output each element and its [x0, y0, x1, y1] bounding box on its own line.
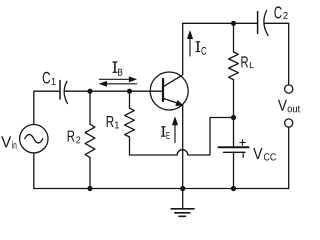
- label Vout: [278, 100, 300, 113]
- capacitor C2: [258, 11, 269, 36]
- wire C1 to base: [64, 90, 163, 92]
- label Vin: [1, 136, 16, 148]
- current arrow IB conventional (right): [99, 77, 136, 82]
- wire C2 to Vout terminal: [264, 23, 289, 85]
- node C1/R2/base junction: [87, 89, 92, 94]
- ground: [171, 189, 194, 217]
- battery VCC: [219, 118, 249, 189]
- node battery bottom on rail: [231, 186, 236, 191]
- wire Vout bottom to rail: [288, 127, 290, 188]
- label RL: [241, 56, 253, 68]
- node RL top junction: [231, 21, 236, 26]
- wire emitter to rail: [182, 105, 184, 189]
- label IE: [161, 127, 166, 136]
- resistor R1: [125, 91, 135, 155]
- wire Vin bottom to rail: [33, 153, 35, 189]
- label C1: [43, 72, 56, 85]
- resistor R2: [85, 91, 95, 188]
- current arrow IC: [187, 31, 192, 56]
- current arrow IE: [172, 117, 177, 142]
- resistor RL: [229, 23, 239, 118]
- voltage source Vin: [20, 125, 48, 153]
- wire collector to top rail: [182, 23, 184, 75]
- output terminal Vout top: [285, 85, 293, 93]
- label IB: [112, 62, 117, 72]
- wire R1 bottom to battery (bias wire with hop): [130, 118, 234, 156]
- current arrow IB electron (left): [100, 81, 137, 86]
- node R1 junction: [127, 89, 132, 94]
- label IC: [196, 42, 201, 52]
- node emitter/ground on rail: [180, 186, 185, 191]
- label C2: [274, 6, 287, 18]
- wire Vin top to C1: [34, 91, 60, 124]
- label R2: [68, 131, 81, 144]
- capacitor C1: [60, 81, 67, 104]
- bottom rail: [34, 188, 289, 190]
- transistor Q1: [150, 72, 188, 110]
- top rail to C2: [183, 22, 258, 24]
- label VCC: [253, 148, 276, 160]
- output terminal Vout bottom: [285, 119, 293, 127]
- label R1: [107, 116, 119, 128]
- node RL/battery/bias junction: [231, 115, 236, 120]
- node R2 bottom on rail: [87, 186, 92, 191]
